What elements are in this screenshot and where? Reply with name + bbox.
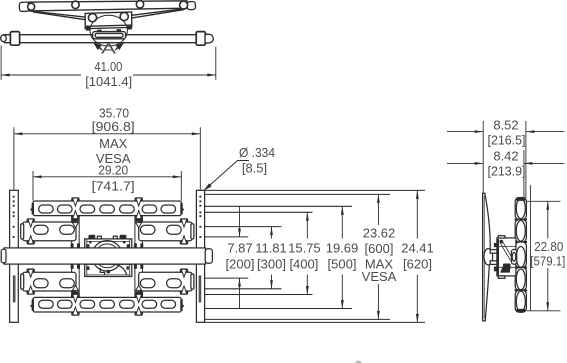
svg-text:[500]: [500] — [328, 256, 357, 271]
section label A arrows — [96, 45, 102, 51]
front view: second row rail right piece — [139, 222, 193, 241]
dim 22.80 [579.1]: extension lines — [527, 201, 561, 310]
dim 15.75 [400] lines — [306, 212, 308, 294]
side view dims 8.52 / 8.42: extension lines — [447, 121, 565, 311]
front view: pivot dome inner circle — [95, 244, 119, 268]
svg-text:MAX: MAX — [99, 136, 128, 151]
front view: L-step detail — [100, 268, 104, 275]
strap-to-tube clamp nubs — [71, 243, 144, 269]
dimension 35.70 [906.8] MAX VESA: extension lines — [14, 127, 200, 189]
top view: bracket black feet — [86, 27, 91, 31]
svg-text:[213.9]: [213.9] — [488, 164, 526, 179]
front view: bracket black feet and dots — [86, 235, 129, 274]
svg-text:[600]: [600] — [365, 241, 394, 256]
top view: tube left end cap — [1, 35, 6, 42]
side view: tube end cap ellipse — [484, 249, 493, 265]
top view: bracket pivot holes — [88, 14, 96, 22]
svg-text:VESA: VESA — [362, 269, 397, 284]
dim 11.81 [300] lines — [271, 227, 273, 289]
side view: strip end caps — [516, 197, 526, 201]
top view: wall tube — [4, 34, 197, 36]
top rail clip tabs — [71, 197, 79, 201]
front view: third row rail right piece — [139, 272, 193, 291]
svg-text:19.69: 19.69 — [326, 240, 359, 255]
svg-text:[400]: [400] — [289, 256, 318, 271]
side view: circle strip cells — [515, 198, 526, 220]
dimension 41.00 [1041.4]: extension lines — [0, 46, 2, 80]
dim 23.62 [600] lines — [377, 194, 379, 319]
dim 24.41 [620] lines — [416, 190, 418, 322]
svg-text:[300]: [300] — [257, 256, 286, 271]
front view: right vertical rail — [196, 190, 204, 322]
svg-text:15.75: 15.75 — [288, 240, 321, 255]
front view: second row rail left piece — [23, 222, 77, 241]
front view: pivot dome circle — [92, 241, 122, 271]
VESA vertical dims: extension lines bottom — [205, 277, 248, 279]
svg-text:29.20: 29.20 — [98, 163, 128, 178]
front view: center pivot bracket upper half — [85, 239, 132, 248]
svg-text:Ø .334: Ø .334 — [239, 145, 275, 160]
strap V couplings — [72, 223, 78, 228]
top view: sliding plate — [93, 32, 126, 39]
dimension 41.00 [1041.4]: dimension line — [1, 74, 216, 76]
dimension 35.70: dimension line — [14, 133, 200, 135]
hole callout leader — [205, 161, 250, 190]
svg-text:[906.8]: [906.8] — [92, 119, 135, 134]
dim 22.80: dimension line — [547, 201, 549, 310]
svg-text:[620]: [620] — [403, 256, 432, 271]
top view: right swing arm — [131, 9, 186, 16]
svg-text:8.52: 8.52 — [493, 117, 518, 132]
top view: tube left block — [10, 32, 19, 46]
svg-text:8.42: 8.42 — [493, 149, 518, 164]
svg-text:[216.5]: [216.5] — [488, 132, 526, 147]
svg-text:22.80: 22.80 — [534, 239, 563, 254]
front view: third row rail left piece — [23, 272, 77, 291]
side view: arm mechanism bracket — [497, 238, 516, 276]
svg-text:A: A — [101, 42, 117, 58]
top view: center pivot bracket — [85, 12, 132, 29]
side view: strip junction marks — [515, 219, 527, 292]
svg-text:24.41: 24.41 — [401, 240, 434, 255]
front view: left vertical strap — [72, 201, 80, 312]
front view: bracket top small tabs — [97, 236, 101, 239]
top view: TV adapter bar — [29, 1, 188, 11]
front view: left vertical rail — [10, 190, 19, 322]
side view: display panel profile — [483, 193, 491, 321]
VESA vertical dims: extension lines top — [205, 190, 425, 322]
dimension 29.20 [741.7]: extension lines — [33, 171, 181, 201]
dim 19.69 [500] lines — [341, 206, 343, 308]
top view: section detail circle A — [90, 15, 127, 46]
front view: tube right cap — [205, 249, 212, 263]
svg-text:41.00: 41.00 — [94, 59, 122, 74]
side view: mechanism capsule — [511, 249, 516, 264]
cropped page footer artifact — [355, 361, 361, 363]
top view: bar right end cap — [187, 1, 196, 9]
svg-text:[741.7]: [741.7] — [92, 178, 135, 193]
top view: bar holes — [28, 1, 188, 11]
front view: right vertical strap — [135, 201, 143, 312]
top view: tube right end cap — [205, 34, 213, 43]
side view: mechanism dark details — [494, 240, 511, 273]
front view: center pivot bracket lower half — [85, 264, 132, 276]
svg-text:11.81: 11.81 — [255, 240, 287, 255]
top rail slots — [39, 205, 54, 213]
svg-text:[1041.4]: [1041.4] — [85, 74, 132, 89]
dim 7.87 [200] lines — [239, 206, 241, 308]
top view: bar left end cap — [19, 2, 29, 12]
front view: top slotted rail — [33, 201, 181, 216]
svg-text:[200]: [200] — [226, 256, 255, 271]
front view: swing quarter arc — [113, 264, 127, 275]
side view: clamp claw nubs — [490, 250, 497, 254]
top rail end tabs — [32, 203, 34, 215]
svg-text:[8.5]: [8.5] — [242, 161, 267, 176]
front view: tube left cap — [1, 249, 6, 263]
svg-text:23.62: 23.62 — [363, 225, 396, 240]
front view: wall tube — [4, 248, 206, 264]
top view: tube right block — [196, 32, 205, 46]
strap junction marks — [72, 219, 142, 294]
svg-text:7.87: 7.87 — [227, 240, 252, 255]
front view: bottom slotted rail — [33, 297, 181, 312]
dimension 29.20: dimension line — [33, 176, 181, 178]
top view: left swing arm — [30, 11, 86, 17]
svg-text:[579.1]: [579.1] — [530, 253, 565, 268]
